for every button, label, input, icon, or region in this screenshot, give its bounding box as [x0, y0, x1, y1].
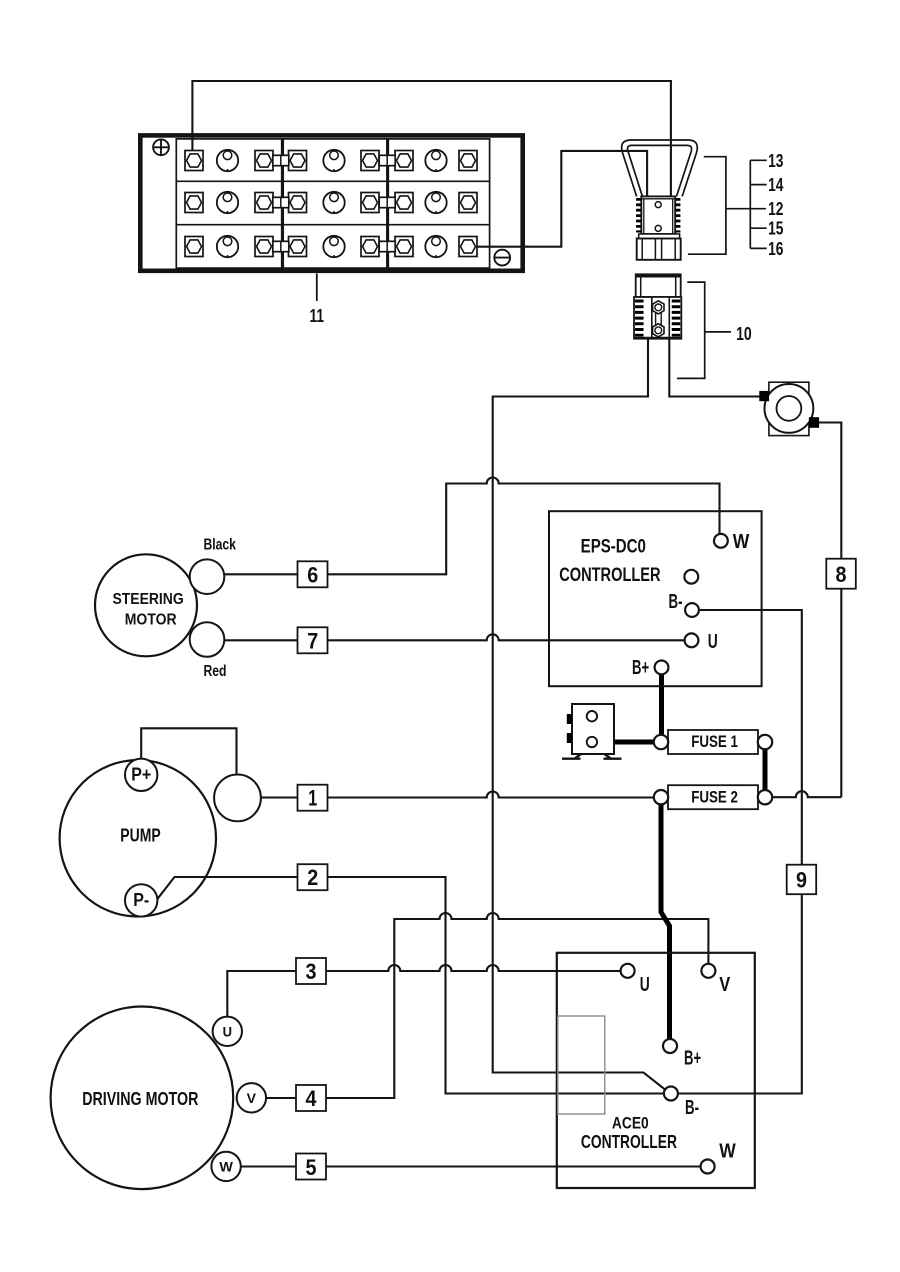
svg-text:16: 16: [768, 238, 783, 259]
svg-text:B+: B+: [632, 657, 649, 679]
svg-text:FUSE 1: FUSE 1: [691, 732, 738, 751]
svg-text:PUMP: PUMP: [120, 825, 160, 845]
svg-text:CONTROLLER: CONTROLLER: [581, 1132, 677, 1152]
svg-text:2: 2: [307, 865, 318, 890]
svg-text:8: 8: [836, 562, 847, 587]
svg-text:B-: B-: [685, 1097, 699, 1119]
svg-text:1: 1: [308, 786, 317, 811]
svg-text:W: W: [719, 1141, 736, 1163]
svg-text:MOTOR: MOTOR: [125, 611, 177, 628]
svg-text:9: 9: [796, 867, 807, 892]
svg-text:6: 6: [307, 563, 318, 588]
svg-text:W: W: [219, 1158, 233, 1174]
svg-text:7: 7: [307, 629, 318, 654]
svg-text:FUSE 2: FUSE 2: [691, 787, 738, 806]
svg-text:U: U: [223, 1023, 232, 1039]
svg-text:14: 14: [768, 174, 784, 195]
svg-text:V: V: [719, 974, 731, 996]
svg-text:Red: Red: [204, 663, 227, 680]
svg-text:4: 4: [306, 1086, 318, 1111]
svg-text:3: 3: [306, 959, 317, 984]
svg-text:5: 5: [306, 1155, 317, 1180]
svg-text:P+: P+: [131, 765, 151, 785]
svg-text:U: U: [708, 631, 718, 653]
svg-text:12: 12: [768, 198, 783, 219]
svg-text:W: W: [733, 531, 750, 553]
svg-text:Black: Black: [203, 537, 236, 554]
svg-text:EPS-DC0: EPS-DC0: [581, 537, 646, 558]
svg-text:U: U: [640, 974, 650, 996]
svg-text:V: V: [247, 1090, 257, 1106]
svg-text:10: 10: [736, 323, 752, 344]
svg-text:B-: B-: [669, 591, 683, 613]
svg-text:ACE0: ACE0: [612, 1114, 649, 1133]
svg-text:DRIVING MOTOR: DRIVING MOTOR: [82, 1089, 198, 1109]
svg-text:CONTROLLER: CONTROLLER: [559, 565, 661, 586]
svg-text:STEERING: STEERING: [113, 591, 184, 608]
svg-text:13: 13: [768, 150, 783, 171]
svg-text:P-: P-: [133, 890, 149, 910]
svg-text:11: 11: [310, 305, 325, 326]
svg-text:15: 15: [768, 218, 783, 239]
svg-text:B+: B+: [684, 1048, 701, 1070]
